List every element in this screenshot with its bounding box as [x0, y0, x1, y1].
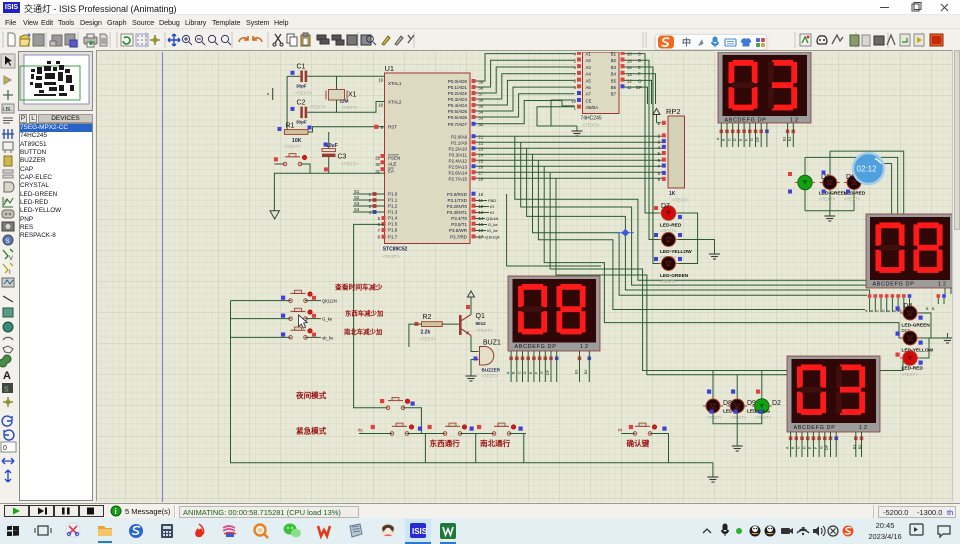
svg-text:A7: A7 — [586, 92, 592, 97]
svg-text:IO_ke: IO_ke — [487, 228, 498, 233]
svg-text:<TEXT>: <TEXT> — [419, 337, 436, 342]
svg-text:DP: DP — [825, 444, 829, 450]
svg-text:确认键: 确认键 — [627, 438, 650, 448]
svg-text:P3.5/T1: P3.5/T1 — [451, 222, 467, 227]
svg-text:P2.1/A9: P2.1/A9 — [451, 140, 468, 145]
svg-text:36: 36 — [479, 97, 484, 102]
svg-text:B1: B1 — [852, 445, 856, 449]
DISP3 pin squares — [509, 357, 591, 361]
svg-text:U1: U1 — [385, 64, 395, 73]
svg-text:EA: EA — [388, 169, 394, 174]
svg-text:DP: DP — [756, 136, 760, 142]
pick etc — [367, 36, 376, 45]
svg-text:LBL: LBL — [3, 107, 12, 113]
svg-text:34: 34 — [479, 109, 484, 114]
LED D8 (off) — [703, 390, 738, 421]
capacitor C3 (cap-elec) — [322, 143, 358, 167]
svg-text:C: C — [638, 52, 641, 57]
svg-text:<TEXT>: <TEXT> — [383, 254, 400, 259]
origin — [150, 35, 160, 45]
svg-text:P2.0/A8: P2.0/A8 — [451, 134, 468, 139]
crystal X1 — [326, 90, 358, 111]
svg-text:12M: 12M — [340, 99, 349, 104]
pan — [168, 34, 180, 46]
svg-text:C: C — [797, 446, 801, 449]
svg-text:<TEXT>: <TEXT> — [284, 144, 301, 149]
svg-text:74HC245: 74HC245 — [581, 116, 602, 122]
DISP4 pin wires — [791, 432, 862, 457]
wire emergency row — [359, 433, 392, 435]
svg-text:IV: IV — [4, 198, 8, 203]
svg-text:XTAL1: XTAL1 — [388, 81, 402, 86]
svg-text:12: 12 — [938, 282, 948, 288]
button K8 (confirm) — [618, 423, 667, 435]
svg-text:18: 18 — [378, 103, 383, 108]
wire LED row risers — [713, 371, 762, 399]
svg-text:30pF: 30pF — [296, 120, 307, 125]
magnifier orange — [255, 525, 266, 536]
svg-text:13: 13 — [627, 72, 632, 77]
svg-text:C2: C2 — [297, 100, 306, 107]
svg-text:B1: B1 — [611, 52, 617, 57]
svg-text:D4: D4 — [904, 303, 913, 310]
resistor pack RP2 — [658, 107, 690, 203]
LED D4 (off) — [896, 303, 931, 333]
wire confirm btn — [621, 433, 635, 435]
button K0 (reset) — [283, 154, 307, 166]
mouse cursor — [299, 315, 308, 328]
svg-text:P1.5: P1.5 — [388, 222, 398, 227]
wire R2 to Q1 base — [442, 323, 459, 325]
svg-text:D: D — [802, 446, 806, 449]
svg-text:G: G — [750, 138, 754, 141]
svg-text:Qk)12N: Qk)12N — [322, 299, 337, 304]
ground (right column) — [942, 333, 953, 343]
notebook — [350, 524, 362, 537]
title bar — [0, 0, 960, 15]
svg-text:A3: A3 — [586, 65, 592, 70]
svg-text:<TEXT>: <TEXT> — [672, 198, 689, 203]
wire RP2 pin1 — [657, 122, 662, 124]
svg-text:rN: rN — [618, 428, 622, 433]
svg-text:东西车减少加: 东西车减少加 — [345, 309, 383, 318]
button K2 (EW adjust) — [281, 308, 333, 321]
wire Q1 collector/emitter — [470, 305, 472, 315]
svg-text:ALE: ALE — [388, 162, 397, 167]
svg-text:IO: IO — [490, 204, 494, 209]
svg-text:P3.2/INT0: P3.2/INT0 — [447, 204, 468, 209]
undo/redo — [239, 36, 248, 42]
jianying scissors — [66, 523, 80, 537]
svg-text:G_ke: G_ke — [322, 317, 333, 322]
svg-text:P1.3: P1.3 — [388, 210, 398, 215]
svg-text:10: 10 — [479, 192, 484, 197]
svg-text:<TEXT>: <TEXT> — [730, 415, 747, 420]
svg-text:<TEXT>: <TEXT> — [583, 123, 600, 128]
svg-text:南北车减少加: 南北车减少加 — [344, 327, 382, 336]
svg-text:P2.5/A13: P2.5/A13 — [448, 164, 467, 169]
ground (mid LED group) — [824, 211, 835, 221]
left panel — [18, 50, 95, 503]
svg-text:23: 23 — [479, 147, 484, 152]
wire XTAL2 net — [307, 102, 384, 113]
svg-text:夜间模式: 夜间模式 — [295, 390, 327, 400]
svg-text:C: C — [517, 371, 521, 374]
svg-text:R1: R1 — [286, 123, 295, 130]
svg-text:S: S — [4, 387, 9, 394]
svg-text:P2.2/A10: P2.2/A10 — [448, 146, 467, 151]
block ops (dark) — [317, 35, 329, 44]
svg-text:DP: DP — [546, 369, 550, 375]
svg-text:B6: B6 — [611, 85, 617, 90]
svg-text:14: 14 — [627, 65, 632, 70]
DISP4 pin squares — [789, 437, 864, 441]
wire C2 to R1 — [284, 112, 287, 132]
green W — [440, 523, 456, 539]
wire K2 left — [231, 318, 291, 320]
print — [84, 37, 97, 44]
red flame — [195, 528, 203, 537]
grid — [137, 35, 147, 45]
preview window — [18, 51, 93, 111]
svg-text:<TEXT>: <TEXT> — [341, 162, 358, 167]
svg-text:<TEXT>: <TEXT> — [476, 328, 493, 333]
svg-text:29: 29 — [375, 156, 380, 161]
LED D3 (red, lit) — [896, 351, 924, 377]
wire P0 bus to 74HC245 — [476, 54, 575, 124]
svg-text:G_ke: G_ke — [488, 222, 498, 227]
calculator — [161, 524, 173, 538]
ground (74HC245) — [572, 126, 583, 136]
mark area — [100, 34, 107, 46]
wire K1 left — [231, 300, 291, 302]
svg-text:ABCDEFG DP: ABCDEFG DP — [794, 425, 836, 431]
wire EA row — [274, 163, 283, 165]
7seg display DISP2 "08" — [866, 214, 954, 288]
wire D7 column returns — [679, 213, 715, 264]
folder — [98, 526, 112, 536]
svg-text:RST: RST — [388, 125, 397, 130]
svg-text:B1: B1 — [574, 370, 578, 374]
LED D7 (red, lit) — [654, 203, 682, 234]
svg-text:12: 12 — [627, 79, 632, 84]
wire left bus down — [231, 301, 713, 463]
svg-text:<TEXT>: <TEXT> — [660, 279, 677, 284]
refresh — [121, 34, 133, 46]
wire right LED column links — [917, 313, 942, 358]
svg-text:东西通行: 东西通行 — [430, 438, 461, 448]
svg-text:25: 25 — [479, 159, 484, 164]
ground (reset cluster) — [270, 211, 279, 219]
svg-text:紧急模式: 紧急模式 — [296, 426, 327, 436]
svg-text:35: 35 — [479, 103, 484, 108]
new — [8, 33, 15, 46]
capacitor C1 — [291, 64, 313, 96]
buzzer BUZ1 — [474, 340, 502, 379]
button K7 (NS pass) — [477, 423, 523, 435]
svg-text:27: 27 — [479, 171, 484, 176]
svg-text:D: D — [881, 309, 885, 312]
svg-text:<TEXT>: <TEXT> — [295, 91, 312, 96]
ground (D7 column) — [709, 249, 720, 259]
DISP2 pin squares — [868, 294, 946, 298]
svg-text:B2: B2 — [788, 137, 792, 141]
sheet border line — [162, 52, 164, 502]
svg-text:Q1k1Qk: Q1k1Qk — [485, 235, 500, 240]
svg-text:19: 19 — [571, 99, 576, 104]
svg-text:D2: D2 — [772, 400, 781, 407]
svg-text:S: S — [6, 239, 10, 245]
svg-text:12: 12 — [859, 425, 869, 431]
svg-text:P0.2/AD2: P0.2/AD2 — [448, 91, 468, 96]
svg-text:15: 15 — [627, 58, 632, 63]
svg-text:D7: D7 — [661, 203, 670, 210]
svg-text:<TEXT>: <TEXT> — [482, 374, 499, 379]
svg-text:i: i — [115, 507, 117, 516]
svg-text:S3: S3 — [354, 201, 360, 206]
P3 net labels — [485, 198, 500, 240]
svg-text:P3.6/WR: P3.6/WR — [449, 228, 468, 233]
svg-text:P1.1: P1.1 — [388, 198, 398, 203]
wire B outputs — [625, 54, 659, 264]
svg-text:30: 30 — [375, 162, 380, 167]
svg-text:2.2k: 2.2k — [421, 330, 431, 336]
microcontroller U1 STC89C52 — [369, 64, 470, 259]
svg-text:S1: S1 — [354, 189, 360, 194]
LED D2 (green, lit) — [752, 390, 781, 421]
svg-text:A2: A2 — [586, 58, 592, 63]
zooms — [182, 35, 231, 45]
svg-text:V: V — [9, 256, 13, 262]
wire crystal stubs — [336, 76, 338, 89]
svg-text:B5: B5 — [611, 78, 617, 83]
svg-text:P0.1/AD1: P0.1/AD1 — [448, 85, 468, 90]
button K1 (query time) — [281, 290, 337, 303]
svg-text:C: C — [727, 138, 731, 141]
wire DISP2 pin drops — [870, 298, 944, 312]
svg-text:P2.7/A15: P2.7/A15 — [448, 176, 467, 181]
girl icon — [381, 523, 395, 537]
svg-text:10uF: 10uF — [326, 143, 338, 149]
button K6 (EW pass) — [428, 423, 474, 435]
svg-text:<TEXT>: <TEXT> — [341, 105, 358, 110]
svg-text:37: 37 — [479, 91, 484, 96]
svg-text:12: 12 — [790, 118, 800, 124]
play bar — [0, 503, 960, 518]
wire C3 stubs — [328, 132, 330, 149]
LED D11 (green, off) — [654, 257, 689, 285]
wire P1.5 to night button — [354, 224, 387, 407]
svg-text:D1: D1 — [821, 174, 830, 181]
svg-text:B7: B7 — [611, 92, 617, 97]
toolbar — [0, 28, 960, 50]
svg-text:ABCDEFG DP: ABCDEFG DP — [515, 344, 557, 350]
svg-text:C: C — [876, 309, 880, 312]
svg-text:21: 21 — [479, 135, 484, 140]
svg-text:19: 19 — [378, 78, 383, 83]
power arrow (RP2) — [653, 109, 660, 123]
terminal probe — [267, 88, 273, 100]
left pin numbers — [369, 78, 384, 240]
left tool column — [0, 50, 18, 503]
wire K6-K7 — [460, 433, 494, 435]
7seg display DISP1 "03" — [718, 52, 811, 124]
svg-text:STC89C52: STC89C52 — [383, 247, 408, 253]
svg-text:P3.3/INT1: P3.3/INT1 — [447, 210, 468, 215]
wire S1-S4 stubs — [353, 194, 385, 212]
svg-text:BUZZER: BUZZER — [482, 368, 501, 373]
cut/copy/paste — [275, 34, 281, 43]
svg-text:33: 33 — [479, 115, 484, 120]
right scrollbar strip — [952, 50, 960, 501]
grid background — [98, 52, 953, 502]
resistor R1 — [278, 123, 308, 150]
svg-text:CE: CE — [586, 99, 592, 104]
svg-text:LED-RED: LED-RED — [902, 366, 924, 372]
DISP1 pin wires — [721, 123, 793, 147]
svg-text:<TEXT>: <TEXT> — [844, 197, 861, 202]
svg-text:G: G — [540, 371, 544, 374]
ground (buzzer) — [466, 371, 477, 381]
DISP1 pin squares — [720, 130, 796, 134]
svg-text:<TEXT>: <TEXT> — [902, 372, 919, 377]
svg-text:P1.0: P1.0 — [388, 192, 398, 197]
svg-text:IO: IO — [490, 210, 494, 215]
svg-text:22: 22 — [479, 141, 484, 146]
svg-text:P1.4: P1.4 — [388, 216, 398, 221]
svg-text:FBD: FBD — [488, 198, 496, 203]
button K3 (NS adjust) — [281, 327, 334, 340]
menu bar — [0, 15, 960, 28]
svg-text:Q1: Q1 — [476, 313, 485, 320]
svg-text:AB/BA: AB/BA — [586, 105, 599, 110]
svg-text:B4: B4 — [611, 72, 617, 77]
svg-text:C3: C3 — [338, 154, 347, 161]
svg-text:P0.4/AD4: P0.4/AD4 — [448, 103, 468, 108]
svg-text:P1.7: P1.7 — [388, 234, 398, 239]
LED D1 (green, lit) — [788, 172, 815, 194]
transistor Q1 (PNP 9012) — [459, 305, 493, 336]
LED D14 (off) — [844, 174, 866, 202]
schematic canvas — [96, 50, 952, 501]
svg-text:P0.0/AD0: P0.0/AD0 — [448, 79, 468, 84]
7seg display DISP4 "03" — [787, 356, 880, 432]
taskbar — [0, 518, 960, 544]
P L DEVICES header — [18, 114, 93, 123]
wire right net cluster — [805, 151, 904, 214]
svg-text:26: 26 — [479, 165, 484, 170]
capacitor C2 — [291, 100, 327, 125]
power arrow (Q1) — [468, 291, 475, 305]
svg-text:39: 39 — [479, 79, 484, 84]
svg-text:P0.3/AD3: P0.3/AD3 — [448, 97, 468, 102]
U1 right pin squares and numbers — [472, 79, 500, 240]
svg-text:A5: A5 — [586, 78, 592, 83]
svg-text:28: 28 — [479, 177, 484, 182]
svg-text:ISIS: ISIS — [412, 527, 428, 536]
svg-text:P2.6/A14: P2.6/A14 — [448, 170, 467, 175]
svg-text:S2: S2 — [354, 195, 360, 200]
buffer IC 74HC245 — [571, 51, 642, 128]
svg-text:南北通行: 南北通行 — [480, 438, 511, 448]
svg-text:P3.7/RD: P3.7/RD — [450, 235, 468, 240]
svg-text:<TEXT>: <TEXT> — [706, 415, 723, 420]
wechat — [284, 524, 297, 535]
svg-text:32: 32 — [479, 122, 484, 127]
svg-text:9012: 9012 — [476, 321, 487, 326]
7seg display DISP3 "08" — [508, 276, 600, 351]
svg-text:Q1k1N: Q1k1N — [486, 216, 499, 221]
svg-text:P3.1/TXD: P3.1/TXD — [447, 198, 467, 203]
U1 left pin squares — [373, 125, 386, 239]
ground (bottom bus) — [712, 463, 714, 472]
wire R1 to RST — [308, 127, 385, 132]
LED D12 (off) — [896, 331, 934, 354]
DISP3 pin wires — [511, 351, 589, 382]
svg-text:查看时间车减少: 查看时间车减少 — [335, 283, 383, 292]
LED D13 (off) — [819, 171, 848, 202]
ground (LED row) — [732, 441, 743, 451]
svg-text:P0.5/AD5: P0.5/AD5 — [448, 109, 468, 114]
wire K3 left — [231, 336, 291, 338]
open — [20, 35, 29, 46]
right cluster — [800, 34, 924, 46]
import/export — [52, 35, 62, 46]
svg-text:P2.4/A12: P2.4/A12 — [448, 158, 467, 163]
svg-text:XTAL2: XTAL2 — [388, 99, 402, 104]
svg-text:C1: C1 — [297, 64, 306, 71]
wire R2 left — [409, 324, 422, 347]
screen-record clock overlay — [853, 153, 884, 184]
bilibili-ish — [223, 526, 235, 531]
wire XTAL1 net — [287, 75, 300, 77]
svg-text:A4: A4 — [586, 72, 592, 77]
svg-text:R2: R2 — [423, 314, 432, 321]
svg-text:11: 11 — [627, 85, 632, 90]
svg-text:rkj: rkj — [358, 428, 362, 433]
svg-text:B2: B2 — [858, 445, 862, 449]
svg-text:24: 24 — [479, 153, 484, 158]
svg-text:中: 中 — [682, 37, 691, 48]
svg-text:<TEXT>: <TEXT> — [755, 415, 772, 420]
sogou input bar — [655, 34, 767, 50]
svg-text:B2: B2 — [611, 58, 617, 63]
svg-text:P1.6: P1.6 — [388, 228, 398, 233]
svg-text:P1.2: P1.2 — [388, 204, 398, 209]
svg-text:I: I — [9, 270, 11, 276]
wire P2 bus to RP2 — [476, 136, 662, 178]
devices list — [19, 123, 93, 501]
svg-text:P0.7/AD7: P0.7/AD7 — [448, 122, 468, 127]
svg-text:0: 0 — [3, 445, 7, 452]
tray — [703, 529, 711, 533]
svg-text:PSEN: PSEN — [388, 155, 400, 160]
window buttons — [870, 0, 960, 15]
svg-text:ABCDEFG DP: ABCDEFG DP — [873, 282, 915, 288]
svg-text:02:12: 02:12 — [857, 165, 878, 174]
svg-text:D: D — [523, 371, 527, 374]
wire C1-C2 link — [286, 76, 288, 112]
node marker — [621, 229, 629, 237]
svg-text:S4: S4 — [354, 207, 360, 212]
svg-text:12: 12 — [580, 344, 590, 350]
svg-text:38: 38 — [479, 85, 484, 90]
svg-text:B1: B1 — [782, 137, 786, 141]
wire night btn right — [403, 408, 421, 434]
svg-text:A1: A1 — [586, 52, 592, 57]
svg-text:<TEXT>: <TEXT> — [309, 105, 326, 110]
LED D9 (off) — [727, 390, 762, 421]
